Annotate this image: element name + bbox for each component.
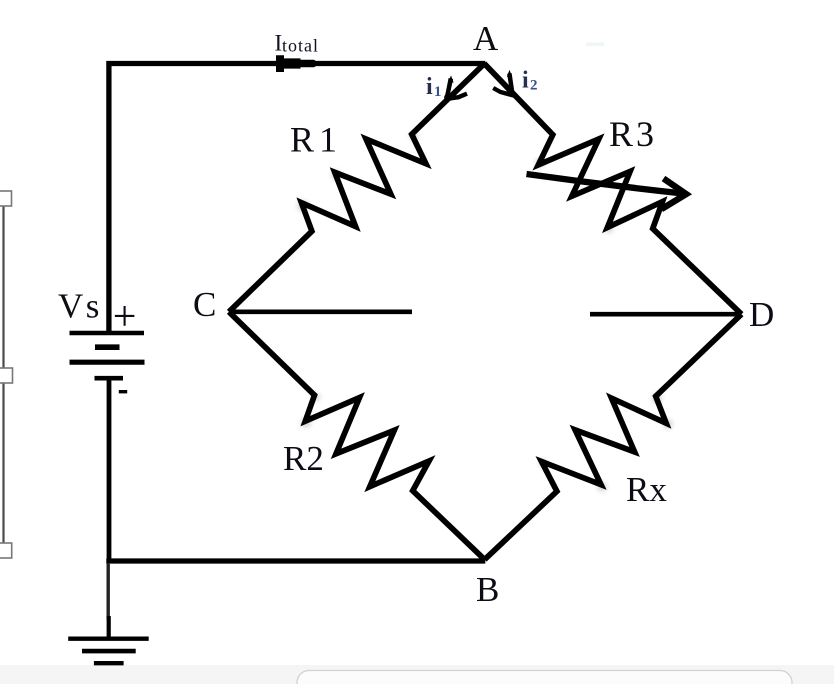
svg-text:D: D <box>749 295 774 334</box>
svg-text:R3: R3 <box>609 114 657 154</box>
selection handle line (left edge UI) <box>2 206 4 543</box>
node C stub wire <box>229 309 412 314</box>
R3 wiper arrow shaft <box>527 174 684 194</box>
svg-text:i: i <box>522 68 529 94</box>
svg-text:B: B <box>476 570 499 609</box>
svg-text:Vs: Vs <box>58 287 102 326</box>
resistor Rx (arm B-D) <box>485 314 742 559</box>
selection handle top <box>0 191 12 206</box>
svg-text:1: 1 <box>434 84 442 100</box>
svg-text:R1: R1 <box>290 120 342 160</box>
search pill outline bottom right <box>297 671 792 684</box>
svg-text:2: 2 <box>530 78 538 94</box>
selection handle bottom <box>0 543 12 558</box>
resistor R2 (arm C-B) <box>229 312 485 560</box>
current arrow i2 (on A-D wire) <box>507 70 512 77</box>
battery - sign <box>119 390 127 393</box>
battery plate 2 (short thick) <box>95 344 120 350</box>
R3 wiper arrowhead <box>661 179 686 210</box>
Itotal block arrow on top wire <box>276 55 320 72</box>
wire: top-left L (source to node A) <box>109 64 485 334</box>
faint smudge artifact <box>586 43 604 47</box>
ground <box>68 637 149 641</box>
svg-text:R2: R2 <box>283 439 324 478</box>
svg-text:A: A <box>473 19 499 58</box>
selection handle middle <box>0 368 13 383</box>
resistor R3 (arm A-D) <box>484 64 741 315</box>
svg-text:C: C <box>193 285 216 324</box>
battery Vs plate 1 (long, +) <box>70 331 145 336</box>
svg-text:Rx: Rx <box>626 470 667 509</box>
wire: battery to bottom rail <box>107 378 112 564</box>
bottom light gray band <box>0 665 834 684</box>
battery plate 3 (long) <box>70 360 145 365</box>
battery plate 4 (short, -) <box>95 376 124 381</box>
wire: bottom rail to B <box>106 558 485 563</box>
pen smudge shadows <box>298 133 672 492</box>
current arrow i1 (on A-C wire) <box>448 75 454 82</box>
svg-text:+: + <box>113 294 137 340</box>
node D stub wire <box>590 312 742 317</box>
svg-text:total: total <box>282 35 319 55</box>
resistor R1 (arm A-C) <box>229 64 485 312</box>
svg-text:i: i <box>426 74 433 100</box>
wire: thin stem to ground <box>106 563 109 620</box>
